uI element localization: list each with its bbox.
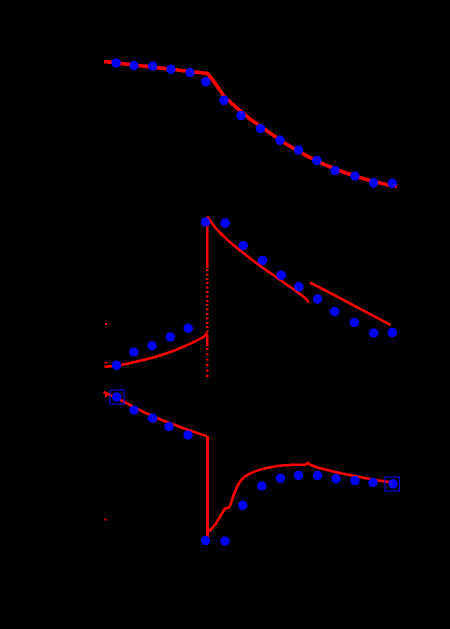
- bottom panel left branch red curve: [104, 392, 208, 436]
- open square marker bottom panel last point: [385, 477, 400, 491]
- isolated red dot middle panel left: [105, 323, 107, 325]
- bottom panel vertical drop line: [206, 436, 209, 537]
- open square marker bottom panel first point: [110, 390, 124, 404]
- middle panel dotted vertical line lower: [206, 348, 208, 378]
- isolated red dash bottom panel start: [105, 395, 107, 397]
- middle panel dotted vertical line upper: [206, 269, 208, 336]
- top panel solid red curve: [104, 62, 397, 187]
- isolated red dot bottom panel left: [105, 519, 107, 521]
- middle panel right segment after jump: [310, 283, 391, 326]
- middle panel junction solid segment: [206, 336, 209, 347]
- isolated red dash middle panel left: [105, 362, 108, 363]
- middle panel peak vertical solid segment: [206, 217, 209, 269]
- middle panel blue data points: [112, 217, 397, 370]
- middle panel left branch red curve: [105, 333, 207, 367]
- bottom panel recovery red curve: [208, 463, 391, 532]
- middle panel descending branch red curve: [208, 217, 309, 303]
- top panel blue data points: [112, 58, 398, 188]
- bottom panel blue data points: [112, 392, 397, 545]
